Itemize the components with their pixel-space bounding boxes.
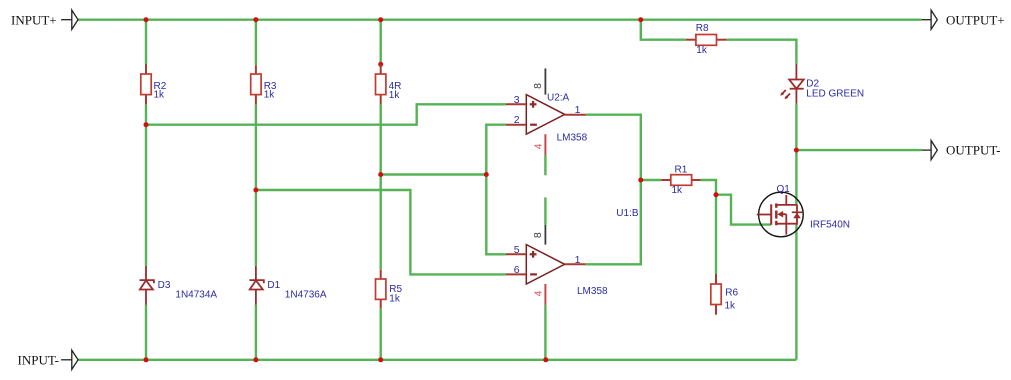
transistor Q1 gate bar: [770, 204, 772, 225]
svg-text:INPUT+: INPUT+: [11, 12, 57, 27]
wire top rail INPUT+ to OUTPUT+: [78, 19, 922, 21]
zener diode D3: [140, 266, 154, 305]
svg-text:1k: 1k: [696, 45, 708, 56]
wire to U1:B pin5: [486, 175, 506, 255]
wire top rail to R8: [641, 20, 686, 40]
transistor Q1 body diode: [796, 205, 798, 225]
wire 4R column top: [380, 20, 382, 65]
junction OUTPUT- node: [794, 148, 799, 153]
svg-text:R1: R1: [675, 164, 688, 175]
svg-text:1k: 1k: [389, 294, 401, 305]
op-amp U1:B pin 6 stub: [506, 273, 526, 275]
op-amp U1:B pin 5 stub: [506, 253, 526, 255]
port INPUT+ arrow: [61, 10, 78, 29]
svg-text:D3: D3: [158, 280, 171, 291]
junction top rail R2: [144, 17, 149, 22]
resistor R3: [255, 65, 257, 104]
junction top rail 4R: [378, 17, 383, 22]
op-amp U1:B pin 4 line: [544, 284, 546, 305]
svg-text:6: 6: [514, 264, 520, 276]
wire R8 to D2 anode: [727, 40, 797, 64]
junction bottom rail U1:B pin4: [543, 357, 548, 362]
svg-text:Q1: Q1: [777, 184, 791, 195]
svg-text:1N4734A: 1N4734A: [175, 290, 217, 301]
op-amp U1:B: [526, 245, 564, 284]
svg-text:LED GREEN: LED GREEN: [806, 89, 864, 100]
wire bottom rail INPUT- to Q1 source: [78, 359, 797, 361]
resistor R5: [380, 270, 382, 309]
op-amp U2:A: [526, 95, 564, 135]
svg-text:1k: 1k: [389, 90, 401, 101]
wire node R2/D3 to U2:A pin3: [146, 104, 506, 124]
svg-text:1k: 1k: [725, 301, 737, 312]
wire node 4R/R5 to U2:A pin2 net: [381, 173, 487, 175]
wire to U2:A pin2: [486, 125, 506, 175]
resistor 4R: [380, 64, 382, 104]
svg-text:1k: 1k: [672, 185, 684, 196]
wire U2:A output down to U1:B output: [585, 115, 640, 265]
op-amp U2:A pin 4 line: [544, 134, 546, 155]
resistor R2: [145, 64, 147, 105]
wire gate node to Q1 gate: [716, 195, 771, 225]
wire output node to R1: [641, 179, 661, 181]
svg-text:OUTPUT-: OUTPUT-: [946, 143, 1000, 158]
svg-text:U2:A: U2:A: [547, 93, 570, 104]
resistor R8: [686, 39, 727, 41]
wire D1 to bottom rail: [255, 305, 257, 360]
transistor Q1 gate pin stub: [757, 214, 772, 216]
transistor Q1 bulk arrow: [777, 211, 783, 218]
LED D2: [781, 64, 804, 104]
transistor Q1 drain connection: [776, 195, 797, 205]
op-amp U1:B pin 8 line: [544, 225, 546, 245]
svg-text:2: 2: [514, 114, 520, 126]
wire gate node down to R6: [715, 195, 717, 274]
svg-text:IRF540N: IRF540N: [810, 219, 850, 230]
junction top rail R8 branch: [638, 17, 643, 22]
svg-text:1N4736A: 1N4736A: [285, 290, 327, 301]
junction R2 bottom node: [144, 122, 149, 127]
svg-text:3: 3: [514, 94, 520, 106]
junction 4R top stub: [378, 62, 383, 67]
svg-text:1: 1: [575, 104, 581, 116]
port INPUT- arrow: [61, 350, 78, 369]
op-amp U2:A plus sign: [530, 101, 537, 125]
wire R3 column middle to D1: [255, 104, 257, 266]
wire R2 column middle to D3: [145, 104, 147, 266]
wire Q1 source to bottom rail: [795, 225, 797, 360]
op-amp U2:A pin 1 stub: [565, 114, 586, 116]
wire U1:B pin4 to bottom rail: [544, 305, 546, 360]
op-amp U1:B pin 1 stub: [565, 263, 586, 265]
resistor R6: [715, 274, 717, 315]
wire R3 column top: [255, 20, 257, 65]
junction top rail R3: [253, 17, 258, 22]
wire U1:B pin8 net segment 2: [544, 197, 546, 225]
junction gate node: [714, 192, 719, 197]
wire D2 cathode to OUTPUT- node: [795, 103, 797, 150]
svg-text:U1:B: U1:B: [616, 208, 639, 219]
op-amp U1:B plus sign: [530, 251, 537, 275]
wire U2:A pin4 net segment 1: [544, 155, 546, 175]
wire node R3/D1 to U1:B pin6: [256, 190, 506, 274]
svg-text:R8: R8: [696, 23, 709, 34]
LED D2 emission arrowheads: [780, 92, 784, 96]
svg-text:5: 5: [514, 244, 520, 256]
junction R3 bottom node: [253, 188, 258, 193]
resistor R1: [661, 179, 701, 181]
wire OUTPUT- node to arrow: [796, 149, 921, 151]
junction pin2/pin5 branch: [484, 172, 489, 177]
svg-text:1k: 1k: [154, 90, 166, 101]
wire R5 to bottom rail: [380, 309, 382, 360]
svg-text:1: 1: [575, 254, 581, 266]
svg-text:D1: D1: [267, 280, 280, 291]
svg-text:LM358: LM358: [557, 133, 588, 144]
wire OUTPUT- node to Q1 drain: [795, 150, 797, 205]
op-amp U2:A pin 8 line: [544, 68, 546, 94]
junction 4R bottom node: [378, 172, 383, 177]
svg-text:4: 4: [532, 143, 544, 149]
transistor Q1 source connection: [776, 224, 797, 235]
op-amp U2:A pin 2 stub: [506, 124, 526, 126]
svg-text:8: 8: [532, 232, 544, 238]
port OUTPUT- arrow: [921, 141, 937, 160]
transistor Q1 bulk link: [783, 214, 786, 224]
junction bottom rail D1: [253, 357, 258, 362]
junction opamp outputs to R1: [638, 178, 643, 183]
junction bottom rail D3: [144, 357, 149, 362]
svg-text:8: 8: [532, 83, 544, 89]
svg-text:LM358: LM358: [577, 286, 608, 297]
wire R1 to gate node: [701, 180, 716, 195]
svg-text:INPUT-: INPUT-: [18, 352, 59, 367]
transistor Q1 MOSFET body circle: [759, 192, 804, 237]
svg-text:1k: 1k: [264, 90, 276, 101]
svg-text:OUTPUT+: OUTPUT+: [946, 13, 1005, 28]
wire R2 column top: [145, 20, 147, 64]
junction bottom rail R5: [378, 357, 383, 362]
port OUTPUT+ arrow: [921, 10, 937, 29]
transistor Q1 channel dashes: [775, 203, 777, 225]
wire D3 to bottom rail: [145, 305, 147, 360]
wire 4R column middle to R5: [380, 104, 382, 269]
zener diode D1: [249, 266, 263, 305]
svg-text:R6: R6: [725, 288, 738, 299]
op-amp U2:A pin 3 stub: [506, 103, 526, 105]
svg-text:4: 4: [532, 290, 544, 296]
